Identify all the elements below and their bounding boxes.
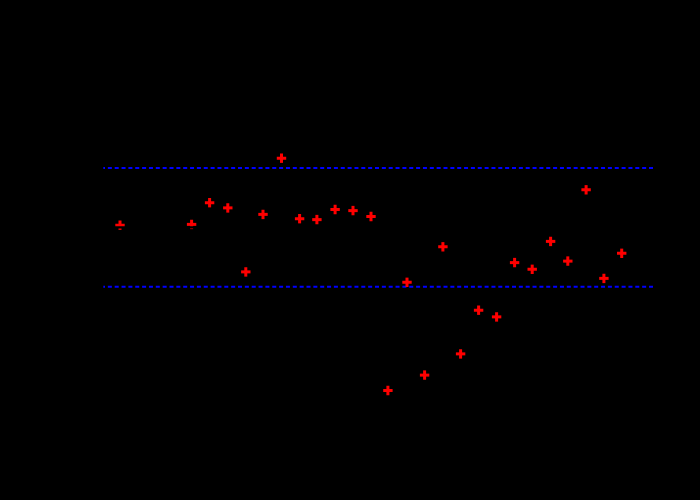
data point 13 (red plus marker) xyxy=(383,386,392,395)
data point 5 (red plus marker) xyxy=(241,267,250,276)
data point 9 (red plus marker) xyxy=(312,215,321,224)
data point 10 (red plus marker) xyxy=(330,205,339,214)
data point 23 (red plus marker) xyxy=(563,256,572,265)
data point 3 (red plus marker) xyxy=(205,198,214,207)
data point 19 (red plus marker) xyxy=(492,312,501,321)
data point 12 (red plus marker) xyxy=(366,212,375,221)
data point 2 (red plus marker) xyxy=(187,220,196,229)
data point 18 (red plus marker) xyxy=(474,306,483,315)
data point 17 (red plus marker) xyxy=(456,349,465,358)
data point 15 (red plus marker) xyxy=(420,370,429,379)
data point 16 (red plus marker) xyxy=(438,242,447,251)
data point 21 (red plus marker) xyxy=(528,265,537,274)
data point 20 (red plus marker) xyxy=(510,258,519,267)
data point 7 (red plus marker) xyxy=(277,154,286,163)
upper control limit line (blue dashed) xyxy=(103,167,655,169)
data point 14 (red plus marker) xyxy=(402,278,411,287)
data point 24 (red plus marker) xyxy=(581,185,590,194)
data point 1 (red plus marker) xyxy=(115,221,124,230)
data point 26 (red plus marker) xyxy=(617,249,626,258)
data point 4 (red plus marker) xyxy=(223,203,232,212)
data point 8 (red plus marker) xyxy=(295,214,304,223)
lower control limit line (blue dashed) xyxy=(103,286,655,288)
data point 22 (red plus marker) xyxy=(546,237,555,246)
data point 6 (red plus marker) xyxy=(258,210,267,219)
data point 25 (red plus marker) xyxy=(599,274,608,283)
data point 11 (red plus marker) xyxy=(348,206,357,215)
center line (black, invisible on background, occludes markers) xyxy=(103,226,655,228)
